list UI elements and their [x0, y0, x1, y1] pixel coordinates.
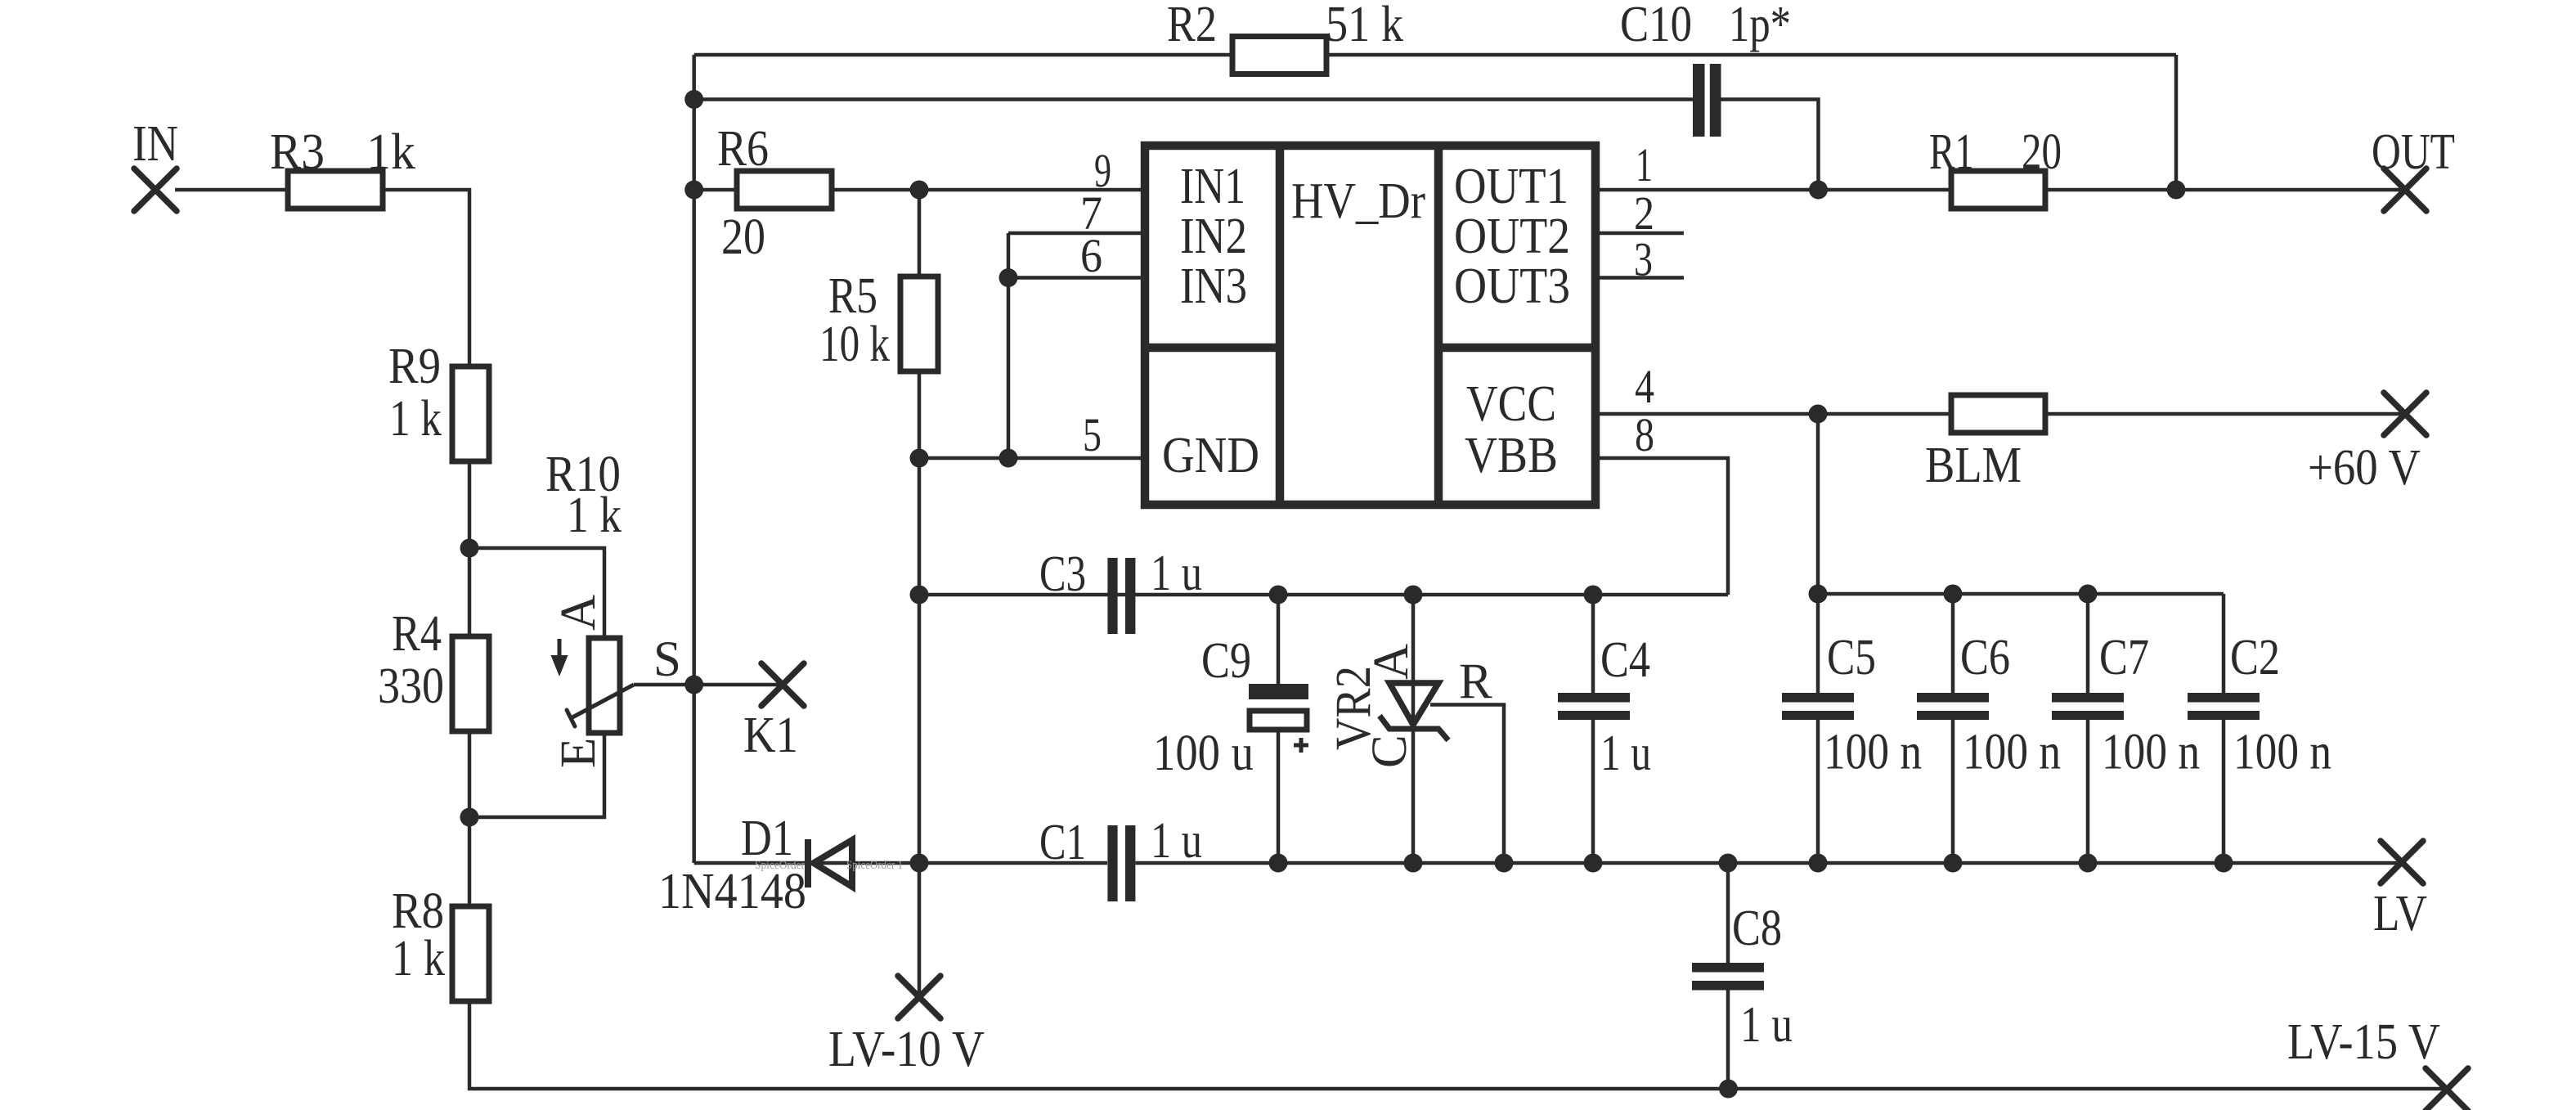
svg-text:100 n: 100 n: [2233, 725, 2331, 780]
svg-text:100 n: 100 n: [1963, 725, 2061, 780]
wire C5..C2 top rail y=726: [1818, 592, 2224, 596]
svg-text:C8: C8: [1732, 901, 1782, 956]
junction D1 / LV rail (1124,1055): [910, 854, 929, 873]
wire vertical x=1233 linking pin7/pin6/GND line: [1007, 233, 1011, 458]
wire GND (pin 5) line: [919, 456, 1145, 461]
svg-text:4: 4: [1635, 360, 1654, 413]
wire pin 3 stub: [1595, 276, 1684, 280]
junction C9 bottom (1563,1055): [1269, 854, 1288, 873]
svg-text:1 u: 1 u: [1600, 726, 1651, 781]
svg-text:BLM: BLM: [1925, 438, 2022, 493]
svg-text:R3: R3: [270, 124, 325, 180]
svg-text:C10: C10: [1620, 0, 1692, 52]
svg-text:5: 5: [1083, 408, 1102, 461]
IC internal horizontal divider left: [1145, 344, 1280, 353]
terminal OUT: [2384, 169, 2426, 211]
svg-text:K1: K1: [743, 708, 798, 763]
wire left vertical bus x=848.7 from top to D1 line: [692, 55, 696, 863]
capacitor C8 1 u: [1692, 963, 1764, 973]
wire C3 rail y=727: [919, 593, 1728, 597]
wire VR2 R terminal to x=1839 down to LV rail: [1430, 705, 1504, 864]
svg-text:1 u: 1 u: [1740, 997, 1793, 1053]
svg-text:R4: R4: [392, 606, 442, 662]
wire IN terminal to R3: [175, 188, 288, 192]
svg-text:VCC: VCC: [1466, 376, 1556, 432]
svg-text:OUT: OUT: [2372, 124, 2455, 180]
wire vertical from pin4 junction down to C5 rail: [1816, 414, 1820, 594]
svg-text:1: 1: [1636, 138, 1653, 191]
junction C3 rail start (1124,727): [910, 586, 929, 604]
junction C2 bottom (2719,1055): [2215, 854, 2233, 873]
svg-text:C1: C1: [1039, 815, 1086, 870]
junction R5 top (1124,232): [910, 181, 929, 200]
svg-text:1 k: 1 k: [567, 488, 622, 543]
svg-text:S: S: [653, 632, 681, 687]
junction C7 bottom (2553,1055): [2079, 854, 2098, 873]
svg-text:10 k: 10 k: [819, 317, 890, 372]
junction C5 bottom (2223,1055): [1809, 854, 1828, 873]
wire C6 vertical x=2388: [1951, 594, 1955, 693]
capacitor C4 1 u: [1558, 693, 1630, 703]
resistor R5 10 k: [900, 276, 938, 371]
junction C9 top (1563,727): [1269, 586, 1288, 604]
svg-text:1 k: 1 k: [392, 931, 445, 986]
capacitor C3 1 u: [1107, 558, 1117, 634]
wire vertical x=2661 from top wire down to OUT1 line: [2174, 55, 2179, 190]
wire R9 bottom to R4 top (junction at 670): [468, 461, 472, 636]
wire VCC (pin 4) line from IC through BLM to +60 V terminal: [1595, 412, 1951, 416]
junction C8 bottom rail (2113.5,1331): [1719, 1080, 1738, 1099]
resistor R6 20: [737, 171, 832, 209]
svg-text:C5: C5: [1827, 630, 1876, 685]
svg-text:1p*: 1p*: [1729, 0, 1791, 52]
junction (848.7,232): [684, 181, 703, 200]
svg-text:C7: C7: [2099, 630, 2149, 685]
wire VBB (pin 8) from IC to corner x=2113 down to C3 rail: [1595, 458, 1728, 595]
potentiometer R10 wiper arm: [571, 685, 634, 718]
potentiometer R10 adjustment arrow: [558, 639, 562, 671]
op-amp U1 HV_Dr IC outline: [1145, 146, 1595, 505]
svg-text:R6: R6: [717, 121, 769, 177]
wire VR2 vertical x=1728: [1411, 595, 1416, 863]
junction VR2 top (1728,727): [1404, 586, 1423, 604]
svg-text:IN3: IN3: [1180, 258, 1247, 314]
capacitor C6 100 n: [1917, 693, 1989, 703]
wire R10 wiper to node S and K1 terminal: [634, 683, 783, 687]
wire C4 vertical x=1948: [1591, 595, 1595, 693]
terminal LV-10 V: [898, 976, 940, 1018]
resistor R4 330: [452, 636, 489, 731]
svg-text:GND: GND: [1162, 428, 1259, 483]
svg-text:OUT1: OUT1: [1454, 159, 1568, 214]
svg-text:100 n: 100 n: [2102, 725, 2200, 780]
svg-text:HV_Dr: HV_Dr: [1291, 173, 1425, 229]
resistor R8 1 k: [452, 906, 489, 1001]
junction C7 top (2553,726): [2079, 585, 2098, 604]
svg-text:6: 6: [1080, 229, 1102, 282]
svg-text:SpiceOrder 1: SpiceOrder 1: [846, 859, 903, 872]
wire C5 vertical x=2223: [1816, 594, 1820, 693]
junction R10 bottom tap (574,999): [460, 808, 479, 827]
resistor R2 51 k: [1232, 37, 1326, 74]
svg-text:C4: C4: [1600, 632, 1650, 688]
wire D1 line from left bus to x=1124: [694, 861, 919, 865]
wire R4 bottom to R8 top (junction at 999): [468, 731, 472, 906]
svg-text:51 k: 51 k: [1326, 0, 1403, 52]
potentiometer R10 wiper end tick (E side): [567, 710, 575, 726]
wire C9 vertical x=1563: [1277, 595, 1281, 684]
junction C6 bottom (2388,1055): [1944, 854, 1963, 873]
junction node S (848.7,837): [684, 676, 703, 694]
svg-text:LV: LV: [2373, 886, 2427, 941]
svg-text:8: 8: [1635, 408, 1654, 461]
wire IC pin 6 from junction x=1233: [1008, 276, 1145, 280]
svg-text:IN2: IN2: [1180, 209, 1247, 264]
svg-text:1 u: 1 u: [1151, 546, 1202, 601]
wire top feedback (R2 net) from node A to x=2661: [694, 53, 1232, 57]
svg-text:A: A: [551, 595, 606, 631]
svg-text:3: 3: [1634, 233, 1653, 286]
wire OUT1 (pin 1) line from IC to OUT terminal: [1595, 188, 1951, 192]
wire R10 bottom tap: [469, 733, 604, 817]
wire R10 top tap: [469, 548, 604, 638]
svg-text:20: 20: [721, 209, 765, 265]
C9 plus sign: [1294, 738, 1308, 753]
wire IC pin 7 from corner x=1233: [1008, 231, 1145, 236]
svg-text:C6: C6: [1960, 630, 2010, 685]
svg-text:1 u: 1 u: [1151, 813, 1202, 869]
svg-text:SpiceOrder: SpiceOrder: [755, 859, 805, 872]
junction C10 to OUT1 line (2223.5,232): [1809, 181, 1828, 200]
terminal IN: [134, 169, 177, 211]
resistor R3 1k: [288, 171, 383, 209]
junction GND line (1233,560): [999, 449, 1018, 468]
svg-text:VBB: VBB: [1465, 428, 1558, 483]
wire C1/LV rail y=1055 to LV terminal: [919, 861, 1107, 865]
junction R5 bottom / GND line (1124,560): [910, 449, 929, 468]
potentiometer R10 1 k body: [589, 638, 620, 733]
capacitor C10 1p*: [1693, 64, 1705, 137]
wire R5 bottom to GND line junction and down to C3/C1 rails and LV-10 V: [918, 371, 922, 997]
svg-text:100 u: 100 u: [1153, 726, 1254, 781]
resistor R9 1 k: [452, 366, 489, 461]
svg-text:330: 330: [378, 658, 444, 714]
capacitor C9 100 u electrolytic: [1249, 684, 1308, 699]
capacitor C7 100 n: [2052, 693, 2124, 703]
svg-text:LV-15 V: LV-15 V: [2287, 1014, 2440, 1070]
svg-text:R2: R2: [1167, 0, 1217, 52]
svg-text:C2: C2: [2230, 630, 2280, 685]
svg-text:R5: R5: [828, 268, 877, 324]
diode D1 triangle: [814, 840, 852, 887]
svg-text:1k: 1k: [366, 124, 415, 180]
IC internal vertical divider right: [1434, 146, 1443, 505]
svg-text:IN: IN: [132, 116, 178, 172]
svg-text:OUT2: OUT2: [1454, 209, 1570, 264]
wire R5 vertical x=1124: pin9 junction down to R5: [918, 190, 922, 276]
wire R3 to corner then down to R9: [383, 190, 469, 366]
wire C8 vertical x=2113 from LV rail to bottom rail: [1726, 863, 1730, 963]
terminal +60 V: [2384, 393, 2426, 435]
svg-text:R9: R9: [388, 339, 441, 394]
svg-text:IN1: IN1: [1180, 159, 1245, 214]
svg-text:+60 V: +60 V: [2308, 440, 2421, 496]
svg-text:100 n: 100 n: [1824, 725, 1922, 780]
junction C4 top (1948,727): [1584, 586, 1603, 604]
capacitor C1 1 u: [1107, 825, 1117, 901]
wire R6 line: node A to R6 to R5-top junction to IC pin 9: [694, 188, 737, 192]
svg-text:1 k: 1 k: [389, 391, 442, 447]
junction R2 net to OUT1 line (2661,232): [2167, 181, 2186, 200]
IC internal vertical divider left: [1276, 146, 1285, 505]
terminal LV-15 V: [2426, 1068, 2468, 1110]
wire C7 vertical x=2553: [2086, 594, 2090, 693]
wire C10 right plate to corner x=2223 then down to OUT1 line: [1721, 100, 1819, 191]
VR2 triangle (anode): [1389, 683, 1438, 725]
capacitor C2 100 n: [2188, 693, 2260, 703]
inductor BLM ferrite bead: [1951, 395, 2045, 433]
svg-text:C3: C3: [1039, 546, 1086, 602]
svg-text:20: 20: [2022, 124, 2062, 180]
terminal K1: [761, 663, 804, 706]
svg-text:E: E: [551, 738, 606, 768]
wire pin 2 stub: [1595, 231, 1684, 236]
junction pin6 tap (1233,339.5): [999, 268, 1018, 287]
capacitor C5 100 n: [1782, 693, 1854, 703]
junction VR2 R bottom (1839,1055): [1495, 854, 1514, 873]
junction pin4 line (2223,506): [1809, 405, 1828, 424]
IC internal horizontal divider right: [1438, 344, 1595, 353]
VR2 cathode bar with tails: [1380, 716, 1448, 740]
wire C2 vertical x=2719: [2222, 594, 2226, 693]
diode D1 1N4148 cathode bar: [805, 839, 811, 888]
junction C4 bottom (1948,1055): [1584, 854, 1603, 873]
wire from node A down to C10 left plate (y=121): [694, 97, 1693, 101]
resistor R1 20: [1951, 171, 2045, 209]
node A junction (848.7,121.5): [684, 90, 703, 109]
junction R10 top tap (574,670): [460, 539, 479, 558]
svg-text:C: C: [1362, 735, 1417, 768]
svg-text:2: 2: [1634, 186, 1654, 240]
svg-text:LV-10 V: LV-10 V: [828, 1022, 985, 1077]
svg-text:R: R: [1459, 654, 1492, 709]
terminal LV: [2381, 841, 2423, 883]
svg-text:A: A: [1364, 644, 1419, 680]
svg-text:R1: R1: [1929, 124, 1974, 180]
junction C8 top (2113,1055): [1719, 854, 1738, 873]
svg-text:1N4148: 1N4148: [658, 864, 806, 919]
svg-text:C9: C9: [1201, 633, 1251, 689]
junction VR2 bottom (1728,1055): [1404, 854, 1423, 873]
junction C6 top (2388,726): [1944, 585, 1963, 604]
svg-text:OUT3: OUT3: [1454, 258, 1570, 314]
wire R8 bottom down and bottom rail to LV-15 V terminal: [469, 1001, 2447, 1089]
junction C5 rail (2223,726): [1809, 585, 1828, 604]
svg-text:D1: D1: [741, 811, 793, 866]
